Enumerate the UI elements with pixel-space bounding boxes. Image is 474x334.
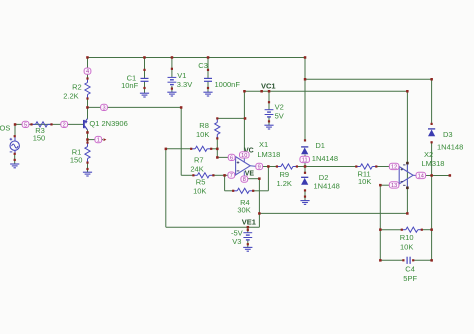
- pin dots C3: [207, 69, 209, 89]
- svg-text:10: 10: [241, 153, 247, 159]
- wire C4 row right: [413, 259, 431, 261]
- pin squares X2 VC/VE: [406, 162, 409, 189]
- node 6: [228, 154, 235, 160]
- svg-text:D3: D3: [443, 130, 453, 139]
- wire R8 bottom to node 6 row: [217, 137, 228, 158]
- ground under V3: [243, 247, 252, 251]
- resistor R4: [232, 188, 254, 193]
- svg-text:6: 6: [230, 155, 233, 161]
- svg-text:VC1: VC1: [261, 82, 276, 91]
- svg-text:10K: 10K: [358, 177, 371, 186]
- wire node 13 row: [380, 184, 389, 186]
- node 2: [61, 121, 68, 127]
- wire node 1 stub: [88, 139, 104, 141]
- svg-text:12: 12: [391, 165, 397, 171]
- pin dots V2: [268, 101, 270, 122]
- node 4: [84, 68, 91, 74]
- junction dots top rail: [86, 56, 306, 59]
- svg-text:LM318: LM318: [257, 150, 280, 159]
- resistor R5: [192, 173, 214, 178]
- node 3: [101, 104, 108, 110]
- capacitor C4: [407, 257, 410, 264]
- wire top rail drop right: [304, 58, 306, 141]
- junction dots Q1 collector column: [86, 131, 89, 141]
- node 7: [228, 172, 235, 178]
- wire R5 to node 7: [213, 174, 228, 176]
- node 5: [22, 121, 29, 127]
- wire D3 branch horizontal: [305, 78, 432, 80]
- svg-text:2.2K: 2.2K: [63, 91, 78, 100]
- wire R1 bottom to ground: [87, 162, 89, 172]
- arrow at node 1 stub end: [104, 138, 107, 141]
- svg-text:5V: 5V: [275, 112, 284, 121]
- junction dot R7-R8: [216, 148, 219, 151]
- wire V3 hanger: [247, 227, 249, 233]
- svg-text:5: 5: [24, 122, 27, 128]
- svg-text:1N4148: 1N4148: [314, 181, 340, 190]
- corner dot R8 node6 row: [216, 156, 219, 159]
- svg-text:3: 3: [102, 105, 105, 111]
- svg-text:R9: R9: [280, 170, 290, 179]
- wire top supply rail: [88, 57, 306, 59]
- wire VE1 left vertical: [165, 149, 167, 227]
- pin dots D3: [431, 123, 433, 144]
- wire R11 to node 12: [374, 166, 390, 168]
- ground under V2: [264, 125, 273, 129]
- svg-text:V2: V2: [275, 103, 284, 112]
- svg-text:30K: 30K: [237, 205, 250, 214]
- capacitor C1: [141, 78, 149, 81]
- wire D3 branch vertical upper: [431, 79, 433, 124]
- voltage source V2: [265, 110, 274, 117]
- svg-text:3.3V: 3.3V: [177, 80, 192, 89]
- svg-text:7: 7: [230, 173, 233, 179]
- pin dots V1: [171, 68, 173, 90]
- junction dot R4 at output row: [267, 165, 270, 168]
- svg-text:1N4148: 1N4148: [312, 154, 338, 163]
- wire R10 row left: [380, 229, 402, 231]
- svg-text:10K: 10K: [196, 130, 209, 139]
- wire R4 row right: [253, 190, 268, 192]
- svg-text:R10: R10: [400, 233, 414, 242]
- wire R2 column top (rail to R2): [87, 58, 89, 79]
- wire node 7 stub into X1: [235, 174, 236, 176]
- resistor R10: [401, 227, 423, 232]
- pin dots D1: [304, 139, 306, 141]
- wire V2 to ground: [268, 118, 270, 126]
- wire C4 row left: [380, 259, 403, 261]
- wire VOS bottom to ground: [14, 154, 16, 164]
- transistor Q1 2N3906: [83, 120, 85, 128]
- svg-text:V3: V3: [232, 237, 241, 246]
- wire C3 to ground: [207, 82, 209, 93]
- ground under C1: [140, 93, 149, 97]
- resistor R3: [30, 122, 52, 127]
- resistor R2: [85, 77, 90, 99]
- wire V1 hanger: [171, 58, 173, 78]
- voltage source VOS (sine): [10, 141, 19, 150]
- junction dot R4 at node7 row: [223, 174, 226, 177]
- wire R5 row left lead-in: [181, 174, 193, 176]
- diode D2: [301, 176, 308, 178]
- svg-text:10K: 10K: [193, 187, 206, 196]
- node 13: [389, 182, 399, 188]
- junction dots VC1 rail: [243, 90, 408, 93]
- junction dot base wire corner: [14, 123, 16, 126]
- pin dot R1 bottom end: [86, 168, 88, 170]
- svg-text:C3: C3: [198, 61, 208, 70]
- svg-text:LM318: LM318: [422, 159, 445, 168]
- ground under V1: [167, 92, 176, 96]
- svg-text:150: 150: [33, 134, 46, 143]
- corner dots C4 row: [379, 259, 433, 262]
- resistor R11: [355, 164, 377, 169]
- pin dots C1: [143, 69, 145, 89]
- svg-text:24K: 24K: [190, 165, 203, 174]
- op-amp U2 X2 LM318 triangle: [399, 167, 413, 184]
- resistor R1: [85, 142, 90, 164]
- resistor R8: [215, 117, 220, 139]
- svg-text:R8: R8: [199, 121, 209, 130]
- voltage source V1: [168, 77, 177, 84]
- svg-text:D1: D1: [315, 141, 325, 150]
- junction dot signal row at D1/D2: [304, 165, 307, 168]
- wire VE1 rail: [166, 226, 260, 228]
- ground under R1: [83, 172, 92, 176]
- pin dots D2: [304, 172, 306, 198]
- end dot X2 output stub: [449, 174, 452, 177]
- wire V2 hanger: [268, 91, 270, 109]
- wire node 6 stub into X1: [235, 156, 236, 158]
- wire C1 hanger: [144, 58, 146, 79]
- resistor R7: [190, 146, 212, 151]
- svg-text:Q1 2N3906: Q1 2N3906: [89, 119, 127, 128]
- pin dots VOS: [14, 135, 16, 161]
- node 12: [389, 163, 399, 169]
- node 14: [416, 172, 426, 178]
- wire V3 to ground: [247, 241, 249, 248]
- wire D3 to output row: [431, 142, 433, 175]
- wire D2 top lead: [304, 167, 306, 173]
- junction dot VE rail at X2: [406, 212, 409, 215]
- svg-text:C4: C4: [405, 264, 415, 273]
- wire C1 to ground: [144, 82, 146, 94]
- svg-text:10nF: 10nF: [121, 81, 139, 90]
- svg-text:14: 14: [418, 174, 424, 180]
- svg-text:R7: R7: [194, 156, 204, 165]
- wire R4 row left: [225, 190, 234, 192]
- junction dot R8 top at VC vertical: [244, 117, 247, 120]
- wire X1 VC vertical from VC1 rail: [243, 91, 245, 151]
- wire R4 right vertical to output row: [267, 167, 269, 191]
- svg-text:13: 13: [391, 183, 397, 189]
- wire R7 row: [166, 148, 191, 150]
- diode D3: [428, 128, 435, 130]
- svg-text:5PF: 5PF: [403, 274, 417, 283]
- wire output feedback vertical: [431, 176, 433, 261]
- svg-text:4: 4: [86, 69, 89, 75]
- svg-text:10K: 10K: [400, 242, 413, 251]
- wire X1 output row: [262, 166, 277, 168]
- wire VOS top: [14, 124, 16, 136]
- svg-text:OS: OS: [0, 123, 10, 132]
- corner dot node 13 row: [379, 184, 382, 187]
- corner dot node3 drop: [180, 106, 183, 109]
- corner dot R7 row left: [165, 148, 168, 151]
- wire X1 VE link: [248, 178, 260, 180]
- svg-text:VE1: VE1: [242, 217, 256, 226]
- wire node 13 stub into X2: [398, 184, 399, 186]
- node 8: [241, 176, 248, 182]
- wire C3 hanger: [207, 58, 209, 79]
- svg-text:R5: R5: [196, 177, 206, 186]
- pin dots V3: [247, 229, 249, 245]
- junction dot V3 at VE1 rail: [247, 226, 250, 229]
- svg-text:11: 11: [302, 158, 308, 164]
- wire VE jog vertical: [258, 179, 260, 228]
- wire node 3 drop to R5 row: [180, 107, 182, 175]
- diode D1: [301, 146, 308, 148]
- junction dot X2 output at feedback: [430, 174, 433, 177]
- ground under D2: [300, 201, 309, 205]
- junction dots D3 branch: [304, 78, 433, 81]
- svg-text:150: 150: [70, 155, 83, 164]
- resistor R9: [276, 164, 298, 169]
- svg-text:1N4148: 1N4148: [437, 143, 463, 152]
- wire R2 bottom to node 3 junction and Q1 emitter: [87, 99, 89, 119]
- junction dots R10 row: [379, 228, 433, 231]
- node 1: [95, 136, 102, 142]
- svg-text:1.2K: 1.2K: [277, 179, 292, 188]
- wire node 12 stub into X2: [398, 166, 399, 168]
- node 11: [300, 156, 310, 162]
- wire R8 top horizontal: [217, 117, 245, 119]
- wire node 3 horizontal: [88, 106, 182, 108]
- svg-text:R2: R2: [72, 83, 82, 92]
- wire Q1 base: [15, 123, 83, 125]
- wire D2 bottom to ground: [304, 190, 306, 200]
- wire X2 output: [426, 175, 450, 177]
- node 9: [256, 163, 263, 169]
- wire X2 VC-VE vertical: [406, 91, 408, 213]
- voltage source V3: [243, 233, 252, 240]
- svg-text:X2: X2: [424, 150, 433, 159]
- wire feedback left vertical: [379, 185, 381, 260]
- op-amp U1 X1 LM318 triangle: [236, 157, 251, 175]
- capacitor C3: [204, 78, 212, 81]
- junction dot VE rail at jog: [258, 212, 261, 215]
- svg-text:2: 2: [63, 122, 66, 128]
- wire R10 row right: [422, 229, 432, 231]
- svg-text:V1: V1: [177, 71, 186, 80]
- svg-text:1: 1: [97, 138, 100, 144]
- svg-text:1000nF: 1000nF: [215, 80, 241, 89]
- wire R4 left vertical from node 7 row: [224, 175, 226, 191]
- wire VE rail: [259, 212, 407, 214]
- junction dot X1 VE corner: [258, 177, 261, 180]
- wire Q1 collector to R1: [87, 130, 89, 143]
- wire V1 to ground: [171, 86, 173, 92]
- node 10: [240, 152, 250, 158]
- ground under C3: [203, 92, 212, 96]
- wire VC1 rail: [244, 90, 407, 92]
- junction dot node 3: [86, 106, 89, 109]
- wire signal row R9 to R11: [297, 166, 356, 168]
- svg-text:9: 9: [258, 165, 261, 171]
- wire D1 branch to node 11 and signal row: [304, 155, 306, 167]
- svg-text:X1: X1: [259, 140, 268, 149]
- wire R7 right to R8 lead junction: [211, 148, 217, 150]
- svg-text:8: 8: [243, 177, 246, 183]
- ground under VOS: [10, 164, 19, 168]
